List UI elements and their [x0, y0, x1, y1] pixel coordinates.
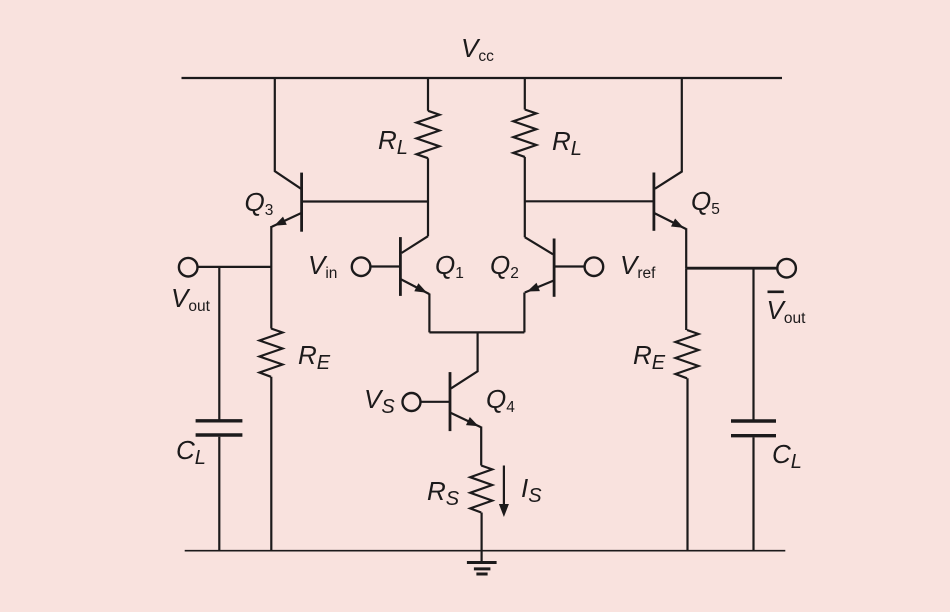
wire: CL (left) to ground rail — [218, 437, 220, 551]
ground bottom rail — [185, 550, 786, 552]
wire: right RL from Vcc rail — [524, 78, 526, 110]
transistor Q3 — [272, 173, 302, 232]
wire: Q1 emitter down — [428, 294, 430, 333]
ground symbol — [467, 563, 497, 575]
label CL (left) — [176, 437, 206, 463]
wire: Q3 base to left RL node — [302, 200, 428, 202]
wire: Q2 emitter down — [523, 293, 525, 333]
label RE (right) — [633, 342, 665, 368]
wire: RL (right) to collector node — [524, 157, 526, 237]
terminal Vref — [585, 257, 604, 276]
transistor Q4 — [450, 372, 481, 431]
wire: node to Q5 base — [525, 200, 654, 202]
wire: VS terminal to Q4 base — [421, 401, 450, 403]
capacitor CL (right) — [731, 421, 776, 436]
wire: Q3 collector from Vcc rail — [275, 78, 301, 189]
resistor RL (left) — [417, 111, 440, 158]
label RL (left) — [378, 127, 408, 153]
wire: Vout terminal to emitter line — [198, 266, 272, 268]
capacitor CL (left) — [196, 421, 243, 435]
wire: RS to ground — [481, 513, 483, 562]
wire: Q2 base to Vref terminal — [554, 265, 584, 267]
wire: Vin terminal to Q1 base — [371, 265, 401, 267]
resistor RE (left) — [260, 329, 283, 377]
wire: Q4 emitter to RS — [480, 427, 482, 466]
terminal VS — [403, 393, 421, 411]
label CL (right) — [772, 441, 802, 467]
label Vout — [171, 285, 210, 311]
wire: CL (right) to ground rail — [752, 437, 754, 550]
wire: left RL from Vcc rail — [427, 78, 429, 111]
wire: RL (left) to collector node — [427, 158, 429, 236]
label RS — [427, 478, 459, 504]
wire: join to Q4 collector — [451, 332, 478, 388]
wire: Q3 emitter down to Vout node — [270, 226, 272, 267]
wire: angle into Q2 collector — [525, 237, 553, 254]
label RE (left) — [298, 342, 330, 368]
resistor RL (right) — [513, 110, 536, 157]
wire: Vout node down to RE (left) — [270, 267, 272, 329]
transistor Q2 — [525, 239, 554, 297]
wire: node to Vout-bar terminal — [686, 267, 777, 270]
terminal Vout — [179, 258, 198, 277]
wire: node down to RE (right) — [685, 268, 687, 330]
label VS — [364, 386, 395, 412]
wire: RE (left) to ground rail — [270, 377, 272, 551]
wire: Q5 collector from Vcc rail — [655, 78, 682, 189]
label Q5 — [691, 188, 720, 214]
wire: Vout node down to CL (left) — [218, 267, 220, 420]
label Q4 — [486, 386, 515, 412]
wire: emitter join line — [429, 331, 524, 333]
wire: angle into Q1 collector — [402, 236, 429, 253]
label Vref — [620, 252, 655, 278]
wire: Q5 emitter down to Vout-bar node — [685, 228, 687, 268]
label Vin — [308, 252, 337, 278]
resistor RS — [470, 466, 492, 513]
Vcc top power rail — [182, 77, 783, 79]
transistor Q5 — [654, 173, 686, 231]
current arrow IS — [499, 466, 509, 518]
label Q2 — [490, 252, 519, 278]
transistor Q1 — [400, 237, 429, 296]
wire: node down to CL (right) — [752, 268, 754, 420]
label Vcc — [461, 35, 494, 61]
label Q1 — [435, 252, 464, 278]
label IS — [521, 475, 542, 501]
terminal Vin — [352, 257, 371, 276]
label Q3 — [245, 189, 274, 215]
label RL (right) — [552, 128, 582, 154]
terminal Vout-bar — [777, 259, 796, 278]
label Vout-bar — [767, 297, 806, 323]
resistor RE (right) — [676, 330, 699, 378]
overbar of Vout-bar label — [768, 290, 784, 293]
wire: RE (right) to ground rail — [686, 378, 688, 550]
